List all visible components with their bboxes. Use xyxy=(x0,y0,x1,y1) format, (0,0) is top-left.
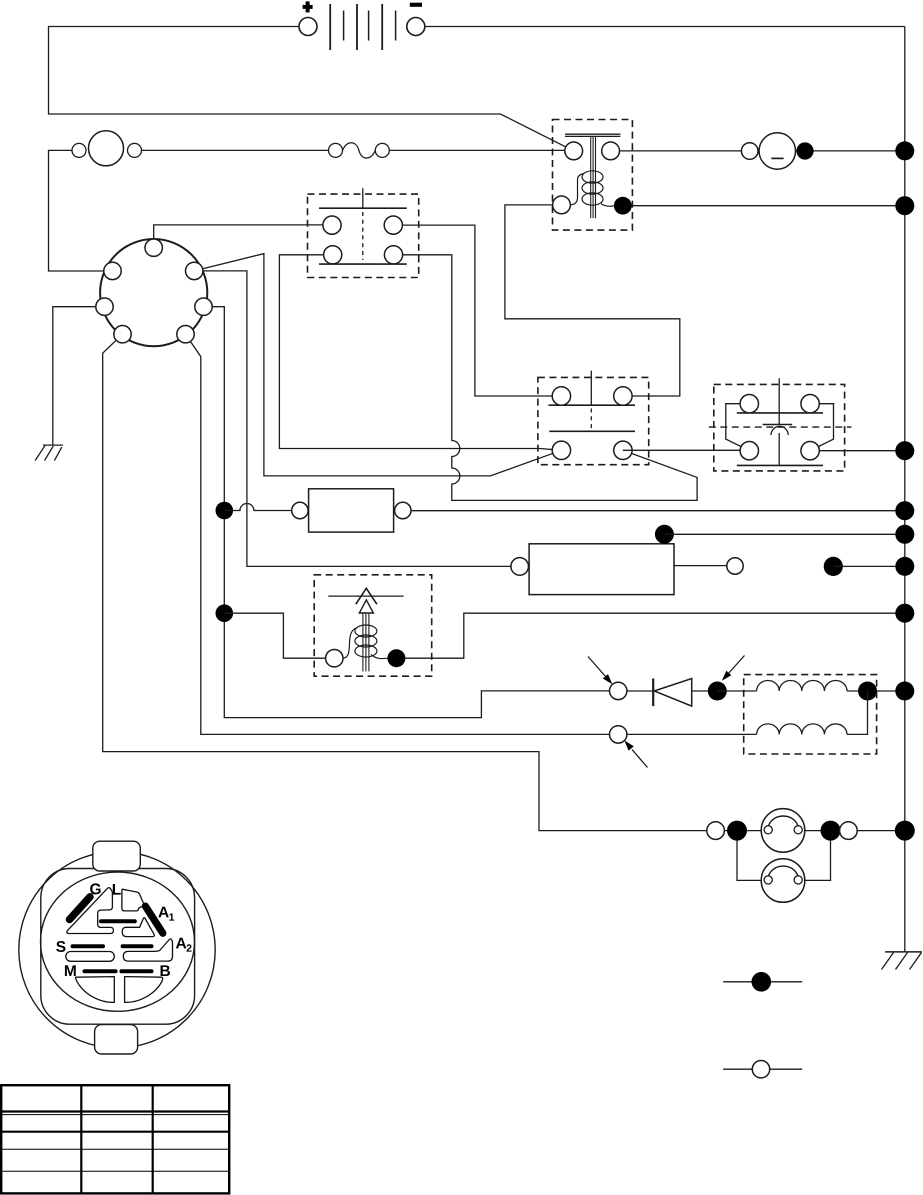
bus junction dot row 613 xyxy=(895,604,914,623)
keyway triangle with neck xyxy=(67,888,114,934)
switch face labels xyxy=(56,881,192,980)
interlock relay (dashed enclosure) xyxy=(308,188,419,277)
junction dot xyxy=(796,142,813,159)
wire fuse to starter solenoid xyxy=(389,149,565,151)
stator coil row1 xyxy=(757,681,847,692)
wire battery positive to left rail xyxy=(49,27,574,151)
fuse xyxy=(329,143,390,158)
ignition switch face (detail view) xyxy=(19,841,215,1054)
wire battery negative to right bus xyxy=(425,26,905,28)
wire ignition G terminal to stator row 2 xyxy=(186,334,619,734)
connector filled dot xyxy=(824,557,843,576)
svg-text:1: 1 xyxy=(169,912,175,924)
seat switch (dashed enclosure) xyxy=(538,371,649,465)
contact bar L xyxy=(101,919,135,923)
circuit breaker xyxy=(72,131,142,166)
wire stator row2 to junction xyxy=(847,691,868,734)
wire ground bus (right vertical) xyxy=(904,27,906,952)
svg-text:G: G xyxy=(90,881,102,898)
stator connector row2 open circle xyxy=(610,726,627,743)
arrow pointer to diode junction xyxy=(722,656,745,681)
battery plate long 1 xyxy=(329,4,331,50)
battery plate short 1 xyxy=(343,11,345,41)
terminal L xyxy=(96,298,113,315)
legend filled connector symbol xyxy=(723,972,802,992)
keyway A2 flag xyxy=(123,939,172,961)
terminal R xyxy=(195,298,212,315)
contact bar M right xyxy=(121,969,151,973)
connector open circle xyxy=(727,558,743,574)
wire junction to ignition unit (with hop) xyxy=(224,504,300,511)
stator connector row1 open circle xyxy=(610,682,627,699)
wire lamp parallel branch xyxy=(737,831,782,881)
keyway slot fin xyxy=(122,918,154,937)
wire solenoid lower-left to seat switch top-right xyxy=(505,205,680,396)
contact bar A1 xyxy=(145,906,162,933)
wire interlock lower-right with wire hops xyxy=(394,255,698,501)
battery plate long 2 xyxy=(356,4,358,50)
svg-text:L: L xyxy=(112,882,121,899)
wire clutch/brake switch to bus xyxy=(810,450,905,452)
junction dot after diode xyxy=(708,682,727,701)
lamp connector open circle xyxy=(707,822,725,840)
legend open connector symbol xyxy=(723,1061,802,1078)
battery plus sign xyxy=(303,1,313,12)
contact bar S right xyxy=(123,944,152,948)
battery minus sign xyxy=(410,3,422,7)
battery plate short 3 xyxy=(395,11,397,41)
terminal top xyxy=(145,239,162,256)
wire ignition A2/accessory vertical to rectifier-regulator input xyxy=(194,271,520,567)
ignition switch (schematic) xyxy=(96,239,212,346)
regulator top junction dot xyxy=(655,525,674,544)
wire regulator top to bus xyxy=(664,533,904,535)
solenoid coil xyxy=(570,174,584,205)
bus junction dot row 510 xyxy=(895,501,914,520)
battery BT1 xyxy=(299,1,425,50)
svg-text:M: M xyxy=(64,963,77,980)
headlamp 1 xyxy=(761,809,805,853)
terminal B xyxy=(104,262,121,279)
wire stator coil to junction xyxy=(847,690,905,692)
wire interlock relay to seat switch left xyxy=(393,225,561,396)
ignition unit (module rectangle) xyxy=(292,489,411,532)
battery terminal circle negative xyxy=(407,18,425,36)
terminal G xyxy=(177,326,194,343)
solenoid starter terminal xyxy=(602,142,620,160)
battery plate long 3 xyxy=(381,4,383,50)
svg-text:S: S xyxy=(56,939,66,956)
contact bar G xyxy=(70,897,91,920)
bus junction dot lamps xyxy=(895,821,915,841)
stator coil row2 xyxy=(757,724,847,735)
battery plate short 2 xyxy=(368,11,370,41)
junction dot ignition feed row 1 xyxy=(216,502,234,520)
diode D1 xyxy=(653,679,692,707)
wire ignition S terminal diagonal riser xyxy=(194,254,561,476)
clutch/brake pedal switch (dashed enclosure) xyxy=(709,378,852,471)
lamp connector dot right xyxy=(821,821,841,841)
headlamp 2 xyxy=(761,859,805,903)
wire ignition top to interlock relay xyxy=(154,225,332,248)
arrow pointer to stator connector row2 xyxy=(624,741,647,768)
wire solenoid output to bus xyxy=(632,205,905,207)
stator output junction dot xyxy=(858,682,877,701)
bus junction dot row 566 xyxy=(895,557,914,576)
wire breaker to ignition switch B terminal xyxy=(49,150,113,271)
ground (left chassis ground) xyxy=(35,445,63,461)
keyway pentagon xyxy=(122,889,144,911)
ground (right chassis ground) xyxy=(882,952,922,970)
svg-text:A: A xyxy=(175,935,186,952)
headlight circuit xyxy=(707,809,915,903)
terminal M xyxy=(114,326,131,343)
terminal A xyxy=(186,262,203,279)
keyway pocket bottom-left xyxy=(76,977,115,1003)
rectifier-regulator (module rectangle) xyxy=(511,525,674,595)
ammeter M1 xyxy=(741,133,813,169)
bus junction dot row 691 xyxy=(895,682,914,701)
wire ignition unit to bus xyxy=(411,510,905,512)
contact bar S left xyxy=(73,944,104,948)
wire connector to bus xyxy=(833,565,905,567)
fuel solenoid (dashed enclosure) xyxy=(314,575,432,676)
wire solenoid to ammeter and bus xyxy=(620,150,905,152)
stator (dashed enclosure) xyxy=(744,675,877,754)
wire lamp row to bus xyxy=(716,830,905,832)
solenoid coil terminal ground (junction) xyxy=(614,197,632,215)
contact bar M left xyxy=(85,969,116,973)
keyway pill below S xyxy=(66,952,115,962)
lamp connector open circle right xyxy=(840,822,858,840)
svg-text:A: A xyxy=(158,904,169,921)
bus junction dot at solenoid coil row xyxy=(895,196,914,215)
battery terminal circle positive xyxy=(299,18,317,36)
wire ignition L terminal to left ground xyxy=(53,307,105,445)
wire ignition M terminal to lamps feed xyxy=(103,334,716,830)
lamp connector dot left xyxy=(727,821,747,841)
solenoid coil terminal S xyxy=(553,196,571,214)
wire seat switch to clutch/brake switch xyxy=(623,449,749,451)
svg-text:2: 2 xyxy=(186,943,192,955)
wire fuel solenoid to bus xyxy=(396,613,904,658)
bus junction dot at ammeter row xyxy=(895,141,914,160)
starter solenoid (dashed enclosure) xyxy=(553,120,633,231)
svg-text:B: B xyxy=(159,963,170,980)
bus junction dot row 534 xyxy=(895,525,914,544)
wire stator row1 through diode xyxy=(618,690,717,692)
wire junction to fuel solenoid xyxy=(224,613,334,658)
wire diode to stator coil xyxy=(717,690,756,692)
bus junction dot at brake row xyxy=(895,441,914,460)
connection table xyxy=(1,1085,229,1193)
wire interlock lower-left long loop xyxy=(279,255,561,450)
solenoid battery terminal xyxy=(565,142,583,160)
wire stator row2 xyxy=(627,733,757,735)
junction dot ignition feed row 2 xyxy=(216,604,234,622)
arrow pointer to stator connector row1 xyxy=(588,657,612,685)
keyway pocket bottom-right xyxy=(125,977,163,1003)
wire ignition A1 terminal down to regulator row (node with junction dots) xyxy=(204,307,619,718)
wire regulator right to connector xyxy=(674,565,735,567)
wire breaker to fuse xyxy=(142,149,329,151)
